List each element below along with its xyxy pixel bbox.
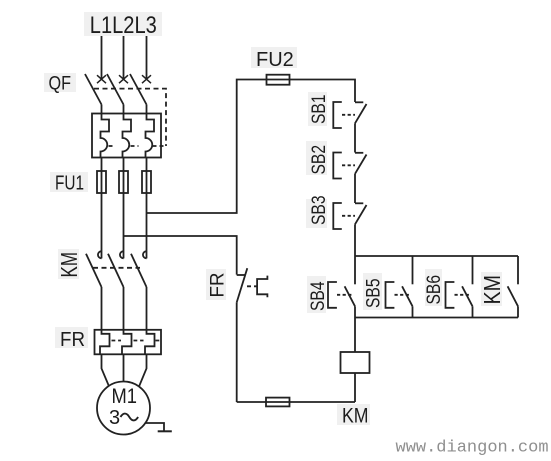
stop button SB2 — [333, 153, 366, 179]
wire phase B FR to motor — [123, 354, 125, 381]
svg-text:FU1: FU1 — [55, 173, 84, 195]
svg-text:FR: FR — [208, 273, 229, 298]
wire rail to KM coil — [354, 318, 356, 353]
wire KM coil to bottom line — [354, 373, 356, 402]
QF trip element pole 3 — [146, 114, 155, 158]
QF trip element pole 2 — [123, 114, 132, 158]
wire phase A QF to FU1 — [101, 158, 103, 172]
svg-text:QF: QF — [49, 74, 72, 95]
KM main contact 2 — [108, 251, 124, 287]
wire phase C QF to FU1 — [146, 158, 148, 172]
FR heater dashed bar — [112, 340, 161, 342]
thermal relay FR heater box — [95, 330, 162, 355]
fuse FU1-2 — [119, 171, 128, 193]
wire control feed from L3 via FU2 — [147, 80, 356, 214]
start button SB4 — [328, 256, 355, 318]
breaker QF pole 3 — [130, 74, 151, 114]
svg-text:SB1: SB1 — [309, 95, 330, 125]
FR heater element 3 — [145, 330, 155, 355]
wire L3 drop — [146, 36, 148, 79]
motor ground wire — [145, 423, 164, 431]
wire parallel bottom rail — [355, 317, 518, 319]
breaker QF trip unit box — [92, 114, 161, 158]
svg-text:M1: M1 — [112, 385, 138, 408]
breaker QF linkage (dashed) — [94, 89, 166, 146]
motor M1 — [97, 382, 150, 435]
fuse FU1-1 — [97, 171, 106, 193]
svg-text:KM: KM — [56, 252, 82, 278]
svg-text:SB3: SB3 — [309, 196, 330, 226]
wire phase B FU1 to KM — [123, 193, 125, 258]
KM main contact 1 — [86, 251, 102, 287]
stop button SB3 — [333, 203, 366, 229]
wire phase C KM to FR — [146, 287, 148, 330]
svg-text:3: 3 — [109, 407, 120, 429]
svg-text:KM: KM — [479, 275, 505, 305]
wire SB2 to SB3 — [354, 174, 356, 203]
wire phase A KM to FR — [101, 287, 103, 330]
QF trip element pole 1 — [101, 114, 110, 158]
contactor KM auxiliary contact — [508, 256, 518, 318]
thermal relay FR NC contact — [237, 268, 268, 302]
svg-text:FU2: FU2 — [256, 49, 294, 71]
breaker QF pole 1 — [85, 74, 106, 114]
svg-text:L1L2L3: L1L2L3 — [90, 12, 157, 39]
KM main contact 3 — [131, 251, 147, 287]
wire phase A FU1 to KM — [101, 193, 103, 258]
wire SB3 to rail — [354, 224, 356, 256]
wire FR contact to bottom line — [236, 302, 238, 402]
wire phase B QF to FU1 — [123, 158, 125, 172]
svg-text:SB5: SB5 — [364, 279, 385, 309]
QF trip dashed bar — [109, 145, 167, 147]
breaker QF pole 2 — [107, 74, 128, 114]
start button SB6 — [446, 256, 473, 318]
wire parallel top rail — [355, 255, 518, 257]
wire SB1 to SB2 — [354, 123, 356, 152]
fuse FU1-3 — [142, 171, 151, 193]
KM main linkage (dashed) — [93, 267, 140, 269]
wire phase B KM to FR — [123, 287, 125, 330]
wire L1 drop — [101, 36, 103, 79]
wire phase C FU1 to KM — [146, 193, 148, 258]
FR heater element 2 — [122, 330, 132, 355]
svg-text:SB6: SB6 — [424, 275, 445, 305]
svg-text:www.diangon.com: www.diangon.com — [396, 439, 549, 458]
svg-text:KM: KM — [342, 405, 369, 428]
ground symbol — [158, 430, 172, 432]
fuse (bottom, control) — [266, 398, 290, 407]
svg-text:FR: FR — [60, 329, 85, 351]
svg-text:SB2: SB2 — [309, 145, 330, 175]
contactor coil KM — [341, 352, 370, 373]
start button SB5 — [386, 256, 413, 318]
wire bottom return line — [237, 401, 355, 403]
stop button SB1 — [333, 102, 366, 128]
svg-text:SB4: SB4 — [308, 281, 329, 311]
FR heater element 1 — [100, 330, 110, 355]
wire L2 tap to FR contact — [124, 236, 237, 275]
wire phase C FR to motor — [139, 354, 146, 386]
fuse FU2 — [267, 75, 290, 85]
wire L2 drop — [123, 36, 125, 79]
wire phase A FR to motor — [102, 354, 109, 386]
